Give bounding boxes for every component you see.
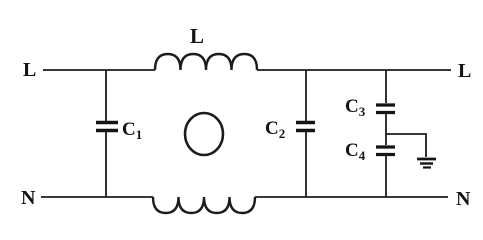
svg-text:C3: C3 — [345, 96, 366, 119]
svg-text:L: L — [190, 24, 204, 48]
svg-text:C4: C4 — [345, 140, 366, 163]
svg-text:L: L — [23, 59, 36, 81]
ground — [417, 158, 436, 161]
svg-text:N: N — [21, 187, 36, 209]
wire C3 branch upper — [385, 70, 387, 103]
svg-text:N: N — [456, 188, 471, 210]
wire top rail right segment — [257, 69, 451, 71]
wire C1 branch upper — [105, 70, 107, 121]
wire bottom rail left segment — [41, 196, 153, 198]
capacitor C4 — [376, 145, 395, 148]
wire bottom rail right segment — [255, 196, 448, 198]
core circle (toroid core) — [185, 113, 223, 155]
wire C1 branch lower — [105, 132, 107, 197]
svg-text:C1: C1 — [122, 119, 142, 142]
wire top rail left segment — [43, 69, 155, 71]
capacitor C2 — [296, 121, 315, 124]
wire C2 branch upper — [305, 70, 307, 121]
capacitor C1 — [96, 121, 118, 124]
inductor L (bottom winding) — [153, 197, 255, 213]
svg-text:L: L — [458, 60, 471, 82]
capacitor C3 — [376, 103, 395, 106]
wire ground branch — [386, 134, 426, 157]
wire between C3 and C4 — [385, 114, 387, 145]
wire C4 branch lower — [385, 156, 387, 197]
svg-text:C2: C2 — [265, 118, 285, 141]
wire C2 branch lower — [305, 132, 307, 197]
inductor L (top winding) — [155, 54, 257, 70]
